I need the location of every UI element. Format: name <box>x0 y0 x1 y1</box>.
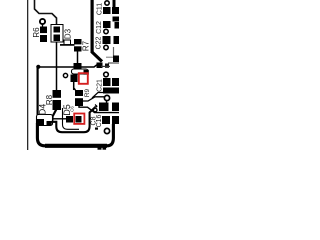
capacitor C12 ring <box>104 29 108 33</box>
capacitor pill outline (C17) <box>72 69 89 74</box>
capacitor C11 pad <box>103 7 111 14</box>
diode D4 outline <box>37 115 53 126</box>
ring pad left <box>63 73 67 77</box>
cap C21 polar ring <box>104 95 109 100</box>
diode D3 outline <box>51 25 63 43</box>
diode D4 pad right <box>47 121 52 125</box>
resistor R6 ring pad <box>40 19 45 24</box>
capacitor C22 ring <box>104 45 108 49</box>
thin tail wire <box>101 65 110 67</box>
wire down from pad <box>73 82 75 90</box>
ring pad bottom <box>104 128 109 133</box>
thick trace bottom loop <box>37 123 113 146</box>
small bump on line <box>93 108 97 112</box>
highlight red box D5 <box>74 114 84 124</box>
black pad <box>71 75 78 83</box>
resistor R8 body <box>53 90 62 110</box>
wire diag to bar <box>92 93 103 99</box>
diode D4 pad left <box>37 119 44 126</box>
thick diagonal <box>92 52 102 62</box>
pill right pad <box>84 70 89 75</box>
bottom small pads <box>98 147 102 149</box>
svg-text:R7: R7 <box>81 40 90 51</box>
svg-text:C22: C22 <box>96 36 103 49</box>
thick vertical trace top right <box>91 0 94 53</box>
tiny pad <box>95 128 98 130</box>
wire D3 to R7 <box>60 44 75 46</box>
svg-text:C12: C12 <box>96 21 103 34</box>
svg-text:R6: R6 <box>32 27 41 38</box>
svg-text:D3: D3 <box>63 28 72 39</box>
thin vline <box>113 47 115 56</box>
wire R6 stem <box>42 24 44 27</box>
wire left vertical down <box>36 67 38 126</box>
capacitor C11 ring <box>105 1 109 5</box>
wire into D5 <box>53 118 66 120</box>
thick trace R8 to bottom <box>40 109 57 123</box>
board edge line <box>27 0 28 150</box>
svg-text:D4: D4 <box>38 104 48 116</box>
tiny vline <box>94 104 96 108</box>
svg-text:C21: C21 <box>97 79 104 92</box>
thin line y57 <box>106 56 114 58</box>
wire D4 right to D5 loop <box>52 106 98 133</box>
big pad right <box>112 103 119 112</box>
junction fillet <box>36 65 40 69</box>
capacitor C21 pad <box>103 78 111 86</box>
resistor R9 body <box>74 88 76 90</box>
resistor R6 pads <box>40 27 47 34</box>
right edge pads top <box>113 0 116 8</box>
right edge pad <box>112 78 119 86</box>
big pad left <box>99 103 109 112</box>
wire R9 bottom right <box>79 106 119 113</box>
wire R7 bottom <box>77 52 79 65</box>
svg-text:C6: C6 <box>70 106 75 112</box>
small pad tick <box>105 64 109 68</box>
wire bus to R8 <box>56 67 58 91</box>
wire trace top-left to D3 <box>35 0 57 25</box>
diode D5 pad right <box>76 116 82 123</box>
diode D3 pads <box>54 27 61 33</box>
diode D5 pad left <box>66 116 73 123</box>
svg-text:C16: C16 <box>96 114 103 127</box>
bottom bar thickener <box>45 144 107 148</box>
svg-text:R8: R8 <box>45 94 54 105</box>
thin line right <box>108 62 119 64</box>
highlight red box C17 <box>79 73 88 84</box>
capacitor C8/C16 pads <box>102 116 110 124</box>
resistor R7 pads <box>74 39 82 44</box>
svg-text:R9: R9 <box>84 88 91 97</box>
capacitor C22 pad <box>103 36 111 44</box>
blob pad <box>97 63 103 69</box>
wire R9 to ring <box>83 97 104 101</box>
capacitor C12 pad <box>103 21 111 28</box>
horizontal bus wire <box>38 63 100 67</box>
pad on bus (R7 net) <box>74 63 82 70</box>
capacitor C21 ring top <box>104 72 109 77</box>
wire D3 bottom down <box>56 42 58 67</box>
test pad outline <box>64 40 71 45</box>
thick bar right <box>103 88 119 94</box>
svg-text:C11: C11 <box>97 3 104 15</box>
D5 outline left <box>63 108 80 129</box>
